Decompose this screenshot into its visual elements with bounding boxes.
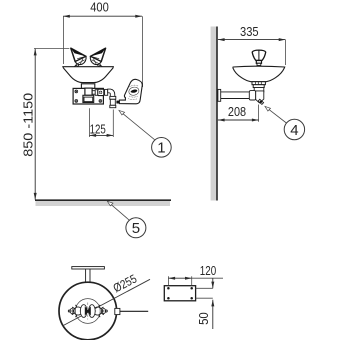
plate holes: [167, 287, 170, 290]
wall flange (side view): [218, 89, 221, 101]
svg-text:120: 120: [200, 263, 216, 278]
pipe coupling (side view): [249, 91, 255, 100]
dimension 50 arrow lower: [212, 300, 214, 329]
wall: [211, 27, 217, 201]
svg-text:125: 125: [90, 122, 106, 137]
bowl neck flange (front view): [81, 84, 94, 89]
svg-text:850 -1150: 850 -1150: [20, 93, 35, 157]
bowl circle (top view): [59, 282, 117, 340]
plate screws: [75, 90, 102, 102]
center body block: [83, 95, 94, 102]
paddle stem (top view): [86, 269, 90, 282]
dimension 335 line: [218, 39, 286, 41]
floor slab shadow: [36, 201, 171, 206]
svg-text:335: 335: [240, 24, 259, 39]
bowl (front view): [63, 67, 113, 83]
valve stack (front view): [110, 96, 116, 107]
outlet pipe line (top view): [120, 310, 148, 312]
svg-text:50: 50: [196, 312, 211, 325]
paddle handle (top view) T-bar: [72, 267, 105, 269]
extension lines of 50: [196, 287, 213, 289]
union screw: [99, 91, 102, 94]
extension line right of 400: [142, 16, 144, 87]
svg-text:5: 5: [132, 220, 140, 237]
mounting plate (front view): [73, 88, 103, 104]
dimension 208 line: [218, 119, 259, 121]
svg-text:400: 400: [90, 0, 109, 15]
svg-text:Ø255: Ø255: [111, 271, 140, 295]
supply pipe (side view): [221, 92, 250, 99]
paddle handle: [119, 79, 142, 103]
paddle connector block: [116, 101, 119, 104]
wall face line: [216, 27, 218, 201]
dimension 50 arrow upper: [212, 278, 214, 288]
leader to balloon 4: [265, 106, 286, 123]
paddle eye logo: [128, 86, 140, 96]
balloon 4: [284, 119, 304, 139]
left spray head: [71, 48, 86, 69]
extension line top of 850-1150: [34, 47, 69, 49]
floor line: [35, 199, 171, 201]
right sprayhead rosette (top view): [94, 305, 108, 317]
elbow outlet nozzle: [258, 99, 263, 104]
mounting plate (rear view): [164, 286, 195, 301]
extension line right of 335: [284, 40, 286, 65]
extension line left of 125: [88, 108, 90, 137]
center body tube: [85, 88, 92, 95]
center valve ellipses (top view): [80, 305, 87, 318]
elbow valve (side view): [256, 91, 264, 103]
bowl (side view): [233, 66, 285, 82]
dimension 400 line: [63, 15, 142, 17]
leader to balloon 1: [119, 110, 155, 139]
spray head (side view): [252, 50, 266, 66]
diameter line: [63, 279, 150, 326]
dimension 120 line: [168, 277, 191, 279]
leader to balloon 5: [107, 201, 129, 220]
extension line right of 208: [258, 105, 260, 122]
right spray head: [90, 48, 105, 69]
svg-text:208: 208: [228, 104, 246, 119]
center dark motif: [85, 306, 91, 315]
valve body (side view): [254, 88, 264, 92]
bowl stem rings (side view): [252, 82, 265, 88]
balloon 5: [126, 218, 146, 238]
extension lines of 120: [167, 276, 169, 285]
svg-text:4: 4: [290, 122, 298, 139]
outlet fitting (top view): [115, 308, 120, 314]
dimension 850-1150 vertical line: [34, 49, 36, 200]
extension line left of 400: [62, 16, 64, 64]
left sprayhead rosette (top view): [68, 305, 82, 317]
leader line from 120: [192, 277, 223, 279]
inner ring (top view): [75, 299, 100, 324]
svg-text:1: 1: [157, 140, 165, 157]
balloon 1: [152, 138, 172, 158]
center crosshair dashes: [80, 303, 97, 320]
paddle arc text marks: [130, 85, 139, 87]
extension line right of 125: [112, 110, 114, 138]
dimension 125 line: [89, 134, 113, 136]
pipe to elbow (front view): [92, 89, 115, 96]
